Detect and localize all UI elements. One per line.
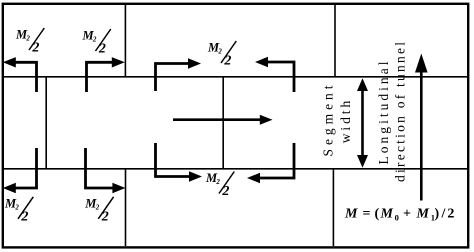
svg-text:0: 0 bbox=[395, 213, 399, 223]
svg-text:): ) bbox=[435, 207, 440, 222]
svg-text:direction of tunnel: direction of tunnel bbox=[393, 42, 408, 182]
svg-text:(: ( bbox=[375, 207, 380, 222]
svg-text:Segment: Segment bbox=[321, 85, 336, 156]
svg-text:M: M bbox=[344, 207, 358, 222]
svg-text:width: width bbox=[338, 101, 353, 144]
svg-text:M: M bbox=[416, 207, 430, 222]
svg-text:2: 2 bbox=[447, 207, 454, 222]
svg-text:=: = bbox=[363, 207, 371, 222]
svg-text:/: / bbox=[441, 207, 447, 222]
svg-text:M: M bbox=[380, 207, 394, 222]
svg-text:+: + bbox=[403, 207, 411, 222]
